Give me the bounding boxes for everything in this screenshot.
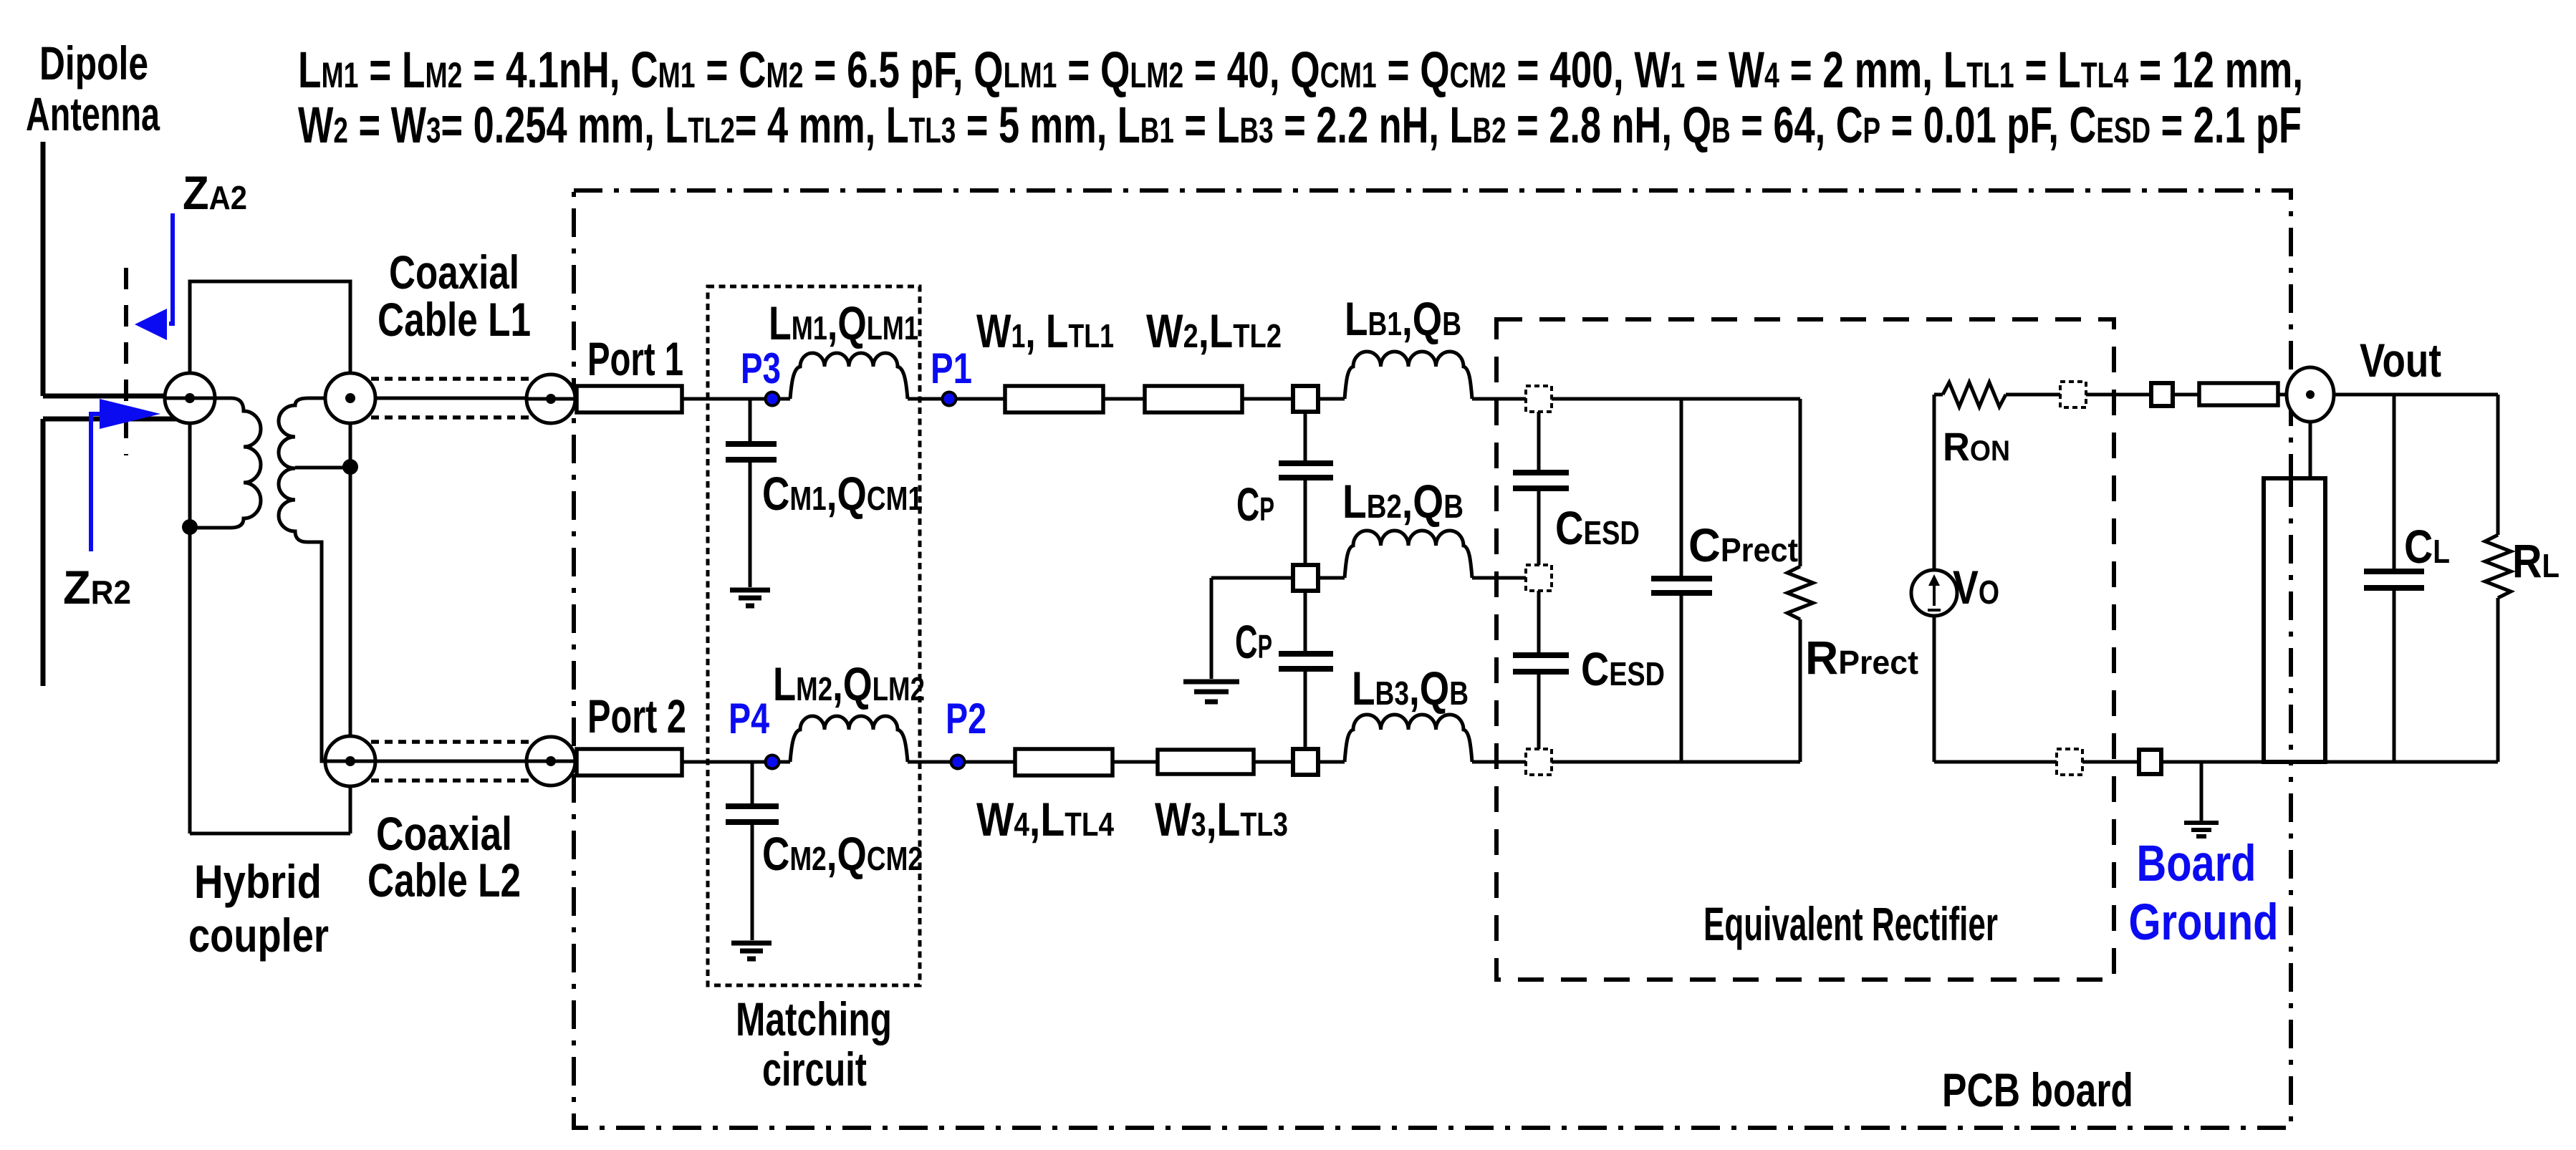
- svg-text:W2 = W3= 0.254 mm, LTL2= 4 mm,: W2 = W3= 0.254 mm, LTL2= 4 mm, LTL3 = 5 …: [298, 97, 2302, 154]
- svg-text:P3: P3: [741, 344, 781, 392]
- svg-text:Dipole: Dipole: [39, 37, 148, 90]
- svg-text:Equivalent Rectifier: Equivalent Rectifier: [1703, 897, 1998, 950]
- svg-text:Ground: Ground: [2129, 894, 2279, 951]
- svg-text:Matching: Matching: [736, 992, 892, 1045]
- svg-text:Port 1: Port 1: [587, 332, 683, 385]
- svg-text:Hybrid: Hybrid: [194, 855, 322, 908]
- svg-text:Board: Board: [2137, 836, 2257, 892]
- svg-text:circuit: circuit: [762, 1043, 867, 1096]
- svg-text:Cable L2: Cable L2: [367, 854, 521, 907]
- svg-text:Antenna: Antenna: [26, 87, 160, 140]
- svg-text:Cable L1: Cable L1: [378, 293, 531, 346]
- svg-text:Vout: Vout: [2360, 334, 2441, 387]
- svg-text:coupler: coupler: [188, 909, 329, 962]
- svg-text:P2: P2: [946, 695, 986, 743]
- svg-text:Port 2: Port 2: [587, 690, 686, 743]
- svg-text:P1: P1: [931, 344, 972, 392]
- svg-text:P4: P4: [729, 695, 769, 743]
- svg-text:Coaxial: Coaxial: [389, 246, 519, 299]
- svg-text:PCB board: PCB board: [1942, 1063, 2133, 1116]
- svg-text:Coaxial: Coaxial: [376, 807, 512, 860]
